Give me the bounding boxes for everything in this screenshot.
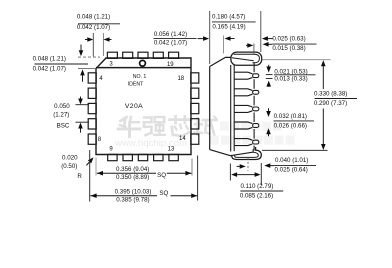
dim 0.110 fraction bar <box>240 190 283 192</box>
lead thickness tick lower <box>266 78 273 80</box>
lead thickness tick upper <box>266 74 273 76</box>
svg-text:8: 8 <box>98 137 102 143</box>
dim body line right <box>167 172 192 174</box>
svg-text:0.180 (4.57): 0.180 (4.57) <box>212 13 245 20</box>
side view right face segment 3 <box>253 96 255 106</box>
arrow into chamfer left <box>85 39 92 41</box>
side view bottom lead curl inner <box>235 149 259 157</box>
bottom-side lead bump 5 <box>169 154 178 160</box>
svg-text:0.042 (1.07): 0.042 (1.07) <box>33 66 66 73</box>
svg-text:3: 3 <box>109 62 113 68</box>
arrow down to lead top <box>268 65 270 71</box>
ext line strip top leftwards <box>78 56 100 58</box>
svg-text:0.048 (1.21): 0.048 (1.21) <box>77 14 110 21</box>
top-side lead bump 4 <box>153 52 163 58</box>
side view top lead curl inner <box>234 54 260 63</box>
dim top chamfer fraction bar <box>78 23 120 25</box>
watermark pseudo-glyph cheng <box>194 117 216 136</box>
dim 0.040 leader arrow <box>267 165 274 167</box>
dim body line left <box>97 172 156 174</box>
arrow up to chamfer bottom <box>82 72 84 82</box>
ext line body right lower <box>191 159 193 176</box>
svg-text:(0.50): (0.50) <box>61 163 77 170</box>
right-side lead 3 <box>191 103 199 113</box>
side view bottom lead curl outer <box>232 147 262 160</box>
dim 0.056 right arrow <box>227 38 235 40</box>
dim 0.021 fraction bar <box>274 74 316 76</box>
seating plane dashed line <box>247 158 249 172</box>
dim 0.330 fraction bar <box>315 98 357 100</box>
svg-text:0.025 (0.63): 0.025 (0.63) <box>272 36 305 43</box>
side view J-lead 3 <box>234 105 252 107</box>
radius leader arrow <box>86 160 91 165</box>
svg-text:www.hqchip.com: www.hqchip.com <box>114 138 187 149</box>
side view body bottom edge through curl <box>231 152 254 156</box>
svg-text:0.040 (1.01): 0.040 (1.01) <box>275 157 308 164</box>
ext line span top <box>262 59 331 61</box>
bottom-side lead bump 2 <box>123 154 132 160</box>
dim height right arrow <box>264 38 273 40</box>
svg-text:0.048 (1.21): 0.048 (1.21) <box>33 55 66 62</box>
svg-text:0.015 (0.38): 0.015 (0.38) <box>272 45 305 52</box>
watermark pseudo-glyph xin <box>169 116 191 136</box>
side view right face segment 1 <box>253 63 255 73</box>
seating small arrow <box>237 165 244 167</box>
ext line chamfer left <box>92 33 94 57</box>
dim overall line left <box>90 195 157 197</box>
left-side lead 4 <box>88 119 96 129</box>
side view J-lead 4 <box>234 122 252 124</box>
bottom-side lead bump 1 <box>108 154 117 160</box>
svg-text:14: 14 <box>179 136 186 142</box>
svg-text:4: 4 <box>99 76 103 82</box>
top-side lead bump 1 <box>107 52 117 58</box>
svg-text:0.330 (8.38): 0.330 (8.38) <box>314 91 347 98</box>
arrow down to pitch upper <box>80 97 82 103</box>
pitch tick lower <box>76 121 90 123</box>
left-side lead 5 <box>88 134 96 144</box>
svg-text:0.395 (10.03): 0.395 (10.03) <box>115 188 152 195</box>
svg-text:0.032 (0.81): 0.032 (0.81) <box>274 113 307 120</box>
svg-text:0.050: 0.050 <box>54 103 70 110</box>
watermark pseudo-glyph hua <box>118 117 140 137</box>
svg-text:0.056 (1.42): 0.056 (1.42) <box>154 31 187 38</box>
svg-text:19: 19 <box>167 62 174 68</box>
side view J-lead 1 <box>234 72 252 74</box>
ext line chamfer right <box>102 33 104 56</box>
left-side lead 1 <box>88 73 96 83</box>
side view right face segment 6 <box>253 146 255 151</box>
side view bottom chamfer <box>210 150 231 156</box>
svg-text:(1.27): (1.27) <box>53 112 69 119</box>
svg-text:0.356 (9.04): 0.356 (9.04) <box>116 166 149 173</box>
dim span arrow up <box>322 62 324 89</box>
arrow up to lead bottom <box>268 83 270 87</box>
ext line curl left lower <box>229 164 231 181</box>
watermark pseudo-glyph qiang <box>144 117 165 135</box>
ext line side body right top <box>253 44 255 55</box>
arrow down to strip top <box>80 45 82 54</box>
svg-text:0.042 (1.07): 0.042 (1.07) <box>154 39 187 46</box>
dim 0.056 fraction bar leader <box>154 37 197 39</box>
dim 0.110 double arrow <box>234 174 259 176</box>
svg-text:18: 18 <box>177 76 184 82</box>
svg-text:13: 13 <box>168 146 175 152</box>
dim overall line right <box>171 195 198 197</box>
ext line side lead tip top <box>260 11 262 52</box>
svg-text:9: 9 <box>109 147 113 153</box>
pitch tick upper <box>76 104 90 106</box>
right-side lead 1 <box>191 73 199 83</box>
ext line lead tips left <box>89 150 91 202</box>
svg-text:V20A: V20A <box>125 103 143 110</box>
svg-text:0.350 (8.89): 0.350 (8.89) <box>116 174 149 181</box>
ext line side left face top <box>209 11 211 64</box>
right-side lead 5 <box>191 134 199 144</box>
svg-text:0.021 (0.53): 0.021 (0.53) <box>274 68 307 75</box>
side view J-lead 5 <box>234 139 252 141</box>
pin 1 ident circle <box>140 60 146 66</box>
side view inner face line 2 <box>233 65 235 151</box>
faint watermark blocks right line 1 <box>220 122 282 131</box>
svg-text:0.025 (0.64): 0.025 (0.64) <box>275 167 308 174</box>
ext line lead tips right <box>197 156 199 201</box>
dim height left arrow <box>198 38 207 40</box>
svg-text:0.385 (9.78): 0.385 (9.78) <box>116 197 149 204</box>
svg-text:SQ: SQ <box>159 190 168 197</box>
faint watermark blocks right line 2 <box>210 136 294 145</box>
right-side lead 2 <box>191 88 199 98</box>
svg-text:0.085 (2.16): 0.085 (2.16) <box>240 193 273 200</box>
dim 0.025 lead-tip arrow <box>246 44 251 46</box>
left-side lead 3 <box>88 103 96 113</box>
top-side lead bump 3 <box>138 52 148 58</box>
top-side lead bump 2 <box>123 52 133 58</box>
side view top chamfer <box>210 57 232 66</box>
svg-text:0.013 (0.33): 0.013 (0.33) <box>274 76 307 83</box>
bottom-side lead bump 3 <box>138 154 147 160</box>
dim 0.025 leader arrow <box>266 43 273 45</box>
svg-text:0.026 (0.66): 0.026 (0.66) <box>274 123 307 130</box>
arrow down to lead4 top <box>268 108 270 115</box>
side view body left face <box>209 67 211 150</box>
arrow into chamfer right <box>105 39 112 41</box>
svg-text:0.165 (4.19): 0.165 (4.19) <box>212 23 245 30</box>
side view right face segment 4 <box>253 112 255 122</box>
dim 0.040 fraction bar <box>274 165 316 167</box>
svg-text:NO. 1: NO. 1 <box>133 74 147 80</box>
svg-text:R: R <box>77 173 82 180</box>
side view body top edge through curl <box>232 58 254 61</box>
side view inner face line 1 <box>230 65 232 152</box>
svg-text:0.020: 0.020 <box>62 155 78 162</box>
svg-text:SQ: SQ <box>157 172 166 179</box>
ext line side chamfer top <box>223 36 225 54</box>
top view package body outline (chamfered corner) <box>96 58 191 155</box>
dim 0.025 fraction bar <box>272 43 316 45</box>
dim 0.032 fraction bar <box>274 120 315 122</box>
top-side lead bump 5 <box>169 52 179 58</box>
left-side lead 2 <box>88 88 96 98</box>
right-side lead 4 <box>191 119 199 129</box>
ext line chamfer bottom leftwards <box>78 67 96 69</box>
side view right face segment 5 <box>253 129 255 139</box>
arrow up to lead4 bottom <box>268 131 270 137</box>
svg-text:0.110 (2.79): 0.110 (2.79) <box>240 183 273 190</box>
side view J-lead 2 <box>234 89 252 91</box>
svg-text:IDENT: IDENT <box>128 82 144 88</box>
arrow up to pitch lower <box>80 125 82 133</box>
svg-text:0.290 (7.37): 0.290 (7.37) <box>314 100 347 107</box>
dim span arrow down <box>322 109 324 149</box>
ext line span bottom <box>262 149 328 151</box>
svg-text:0.042 (1.07): 0.042 (1.07) <box>77 24 110 31</box>
side view top lead curl outer <box>231 52 262 65</box>
svg-text:BSC: BSC <box>57 123 70 130</box>
bottom-side lead bump 4 <box>154 154 163 160</box>
dim left chamfer fraction bar <box>35 63 89 65</box>
ext line curl right lower <box>260 163 262 185</box>
dim height fraction bar <box>212 21 256 23</box>
side view right face segment 2 <box>253 79 255 89</box>
top view pin-1 strip line <box>96 67 191 69</box>
ext line body left lower <box>95 158 97 176</box>
